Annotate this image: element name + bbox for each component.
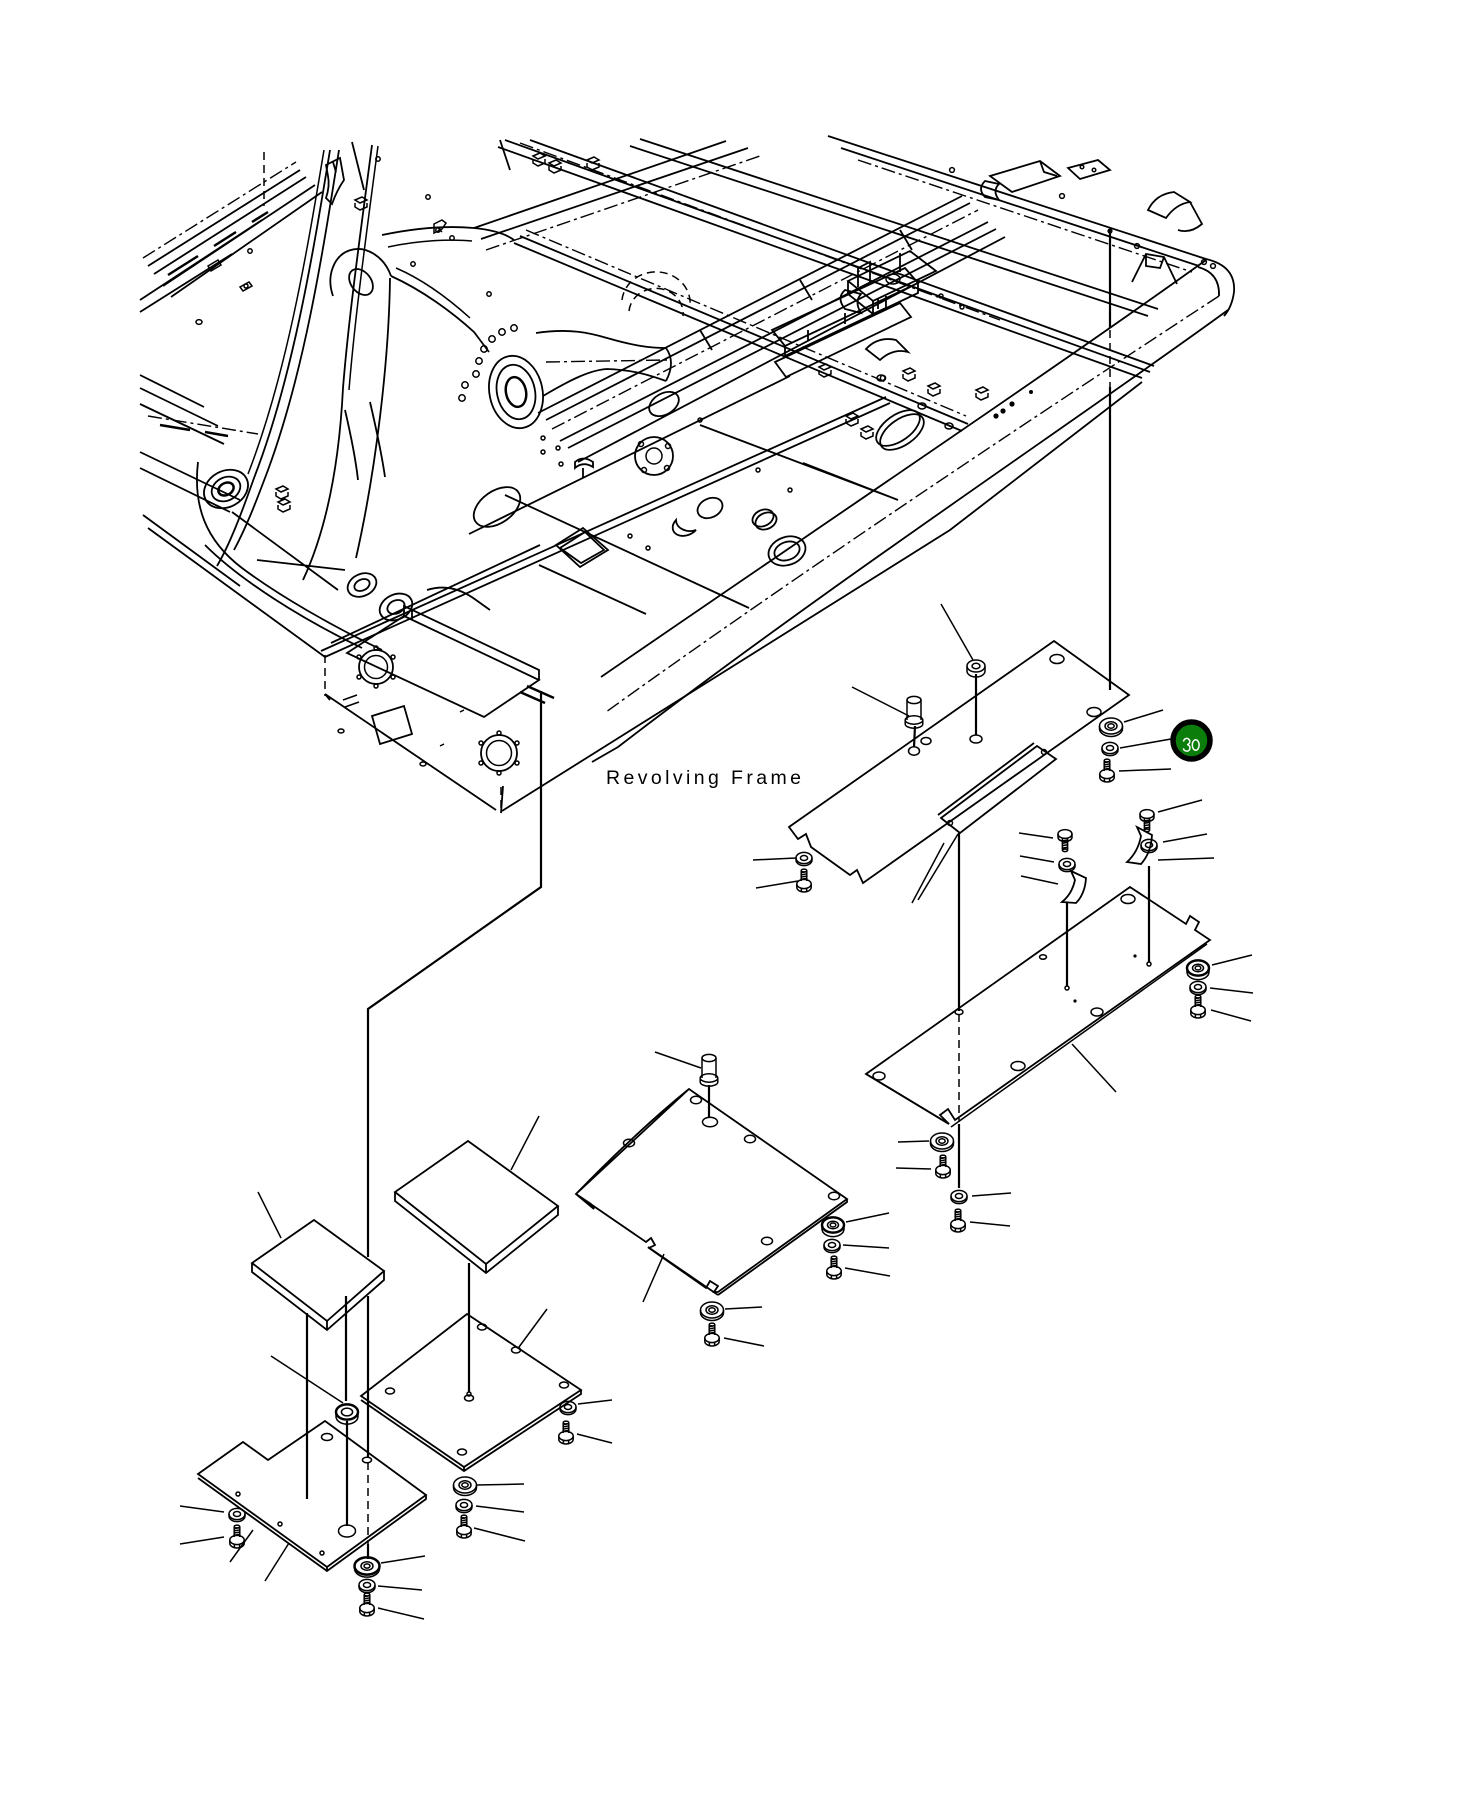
bolt below plate3	[705, 1323, 719, 1346]
box floor front edge	[321, 397, 890, 657]
upper mount bracket	[981, 161, 1060, 200]
flap1 bolt	[1058, 830, 1072, 852]
bolt right of plate2	[1191, 995, 1205, 1018]
callout badge 30	[1173, 722, 1210, 759]
chimney bracket	[326, 158, 344, 204]
washer right of plate3	[824, 1239, 840, 1252]
leader to large washer	[1124, 710, 1163, 722]
top clipped rail ends	[263, 152, 265, 206]
rail b1	[498, 140, 1150, 378]
plate3 lower-left leader	[643, 1254, 664, 1302]
bolt left of plate5	[230, 1525, 244, 1548]
washer left of plate1	[796, 852, 812, 865]
fork clip	[434, 220, 446, 233]
box corner dashes	[500, 787, 502, 813]
pin3 leader	[655, 1052, 701, 1068]
deck flanged circle	[635, 437, 673, 475]
pin bushing on plate 1	[905, 696, 923, 747]
left lower rails	[140, 452, 240, 512]
plate5 leaders	[230, 1530, 289, 1581]
left rail clips	[196, 260, 252, 324]
bolt at line end	[951, 1209, 965, 1232]
pad2 leader	[511, 1116, 539, 1170]
plate 2 (lower right cover)	[866, 887, 1210, 1127]
deck small ovals	[694, 494, 726, 522]
big washer at line B end	[355, 1557, 380, 1577]
plate4 leader	[519, 1309, 547, 1347]
rail m1	[514, 236, 968, 431]
boom eye 2 bearing boss	[482, 351, 549, 433]
deck oval right	[870, 403, 926, 453]
box small details	[338, 695, 464, 766]
box hole 1 with bolt circle	[359, 650, 393, 684]
mid deck bolt cubes	[819, 364, 988, 439]
left arm inner edge	[303, 145, 372, 580]
box step panel	[347, 606, 539, 717]
left arm outer edge	[217, 150, 330, 566]
boom eye 1 boss arc	[330, 249, 391, 296]
bolt below plate4	[457, 1515, 471, 1538]
flap1 washer	[1059, 858, 1075, 871]
pad1 hanger lines	[307, 1296, 346, 1499]
nut with long bolt	[967, 660, 985, 735]
nut leader	[941, 604, 973, 660]
deck dots	[541, 418, 792, 550]
bolt left of plate1	[797, 869, 811, 892]
small washer item 30	[1102, 742, 1118, 755]
big nut below plate4	[454, 1477, 477, 1496]
deck oval hole left	[467, 479, 528, 535]
bolt right of plate4	[559, 1421, 573, 1444]
pad1 leader	[258, 1192, 281, 1238]
arm inner web line	[356, 278, 390, 558]
deck flanged oval	[764, 531, 809, 570]
pin leader	[852, 687, 909, 716]
engine mount bracket	[848, 251, 936, 314]
nut right of plate2	[1187, 960, 1209, 979]
cross band upper edge	[382, 227, 514, 240]
flap1 leader	[1021, 876, 1058, 884]
frame right edge lower	[592, 310, 1228, 762]
hanger line strip to plate2	[958, 833, 960, 1011]
frame right edge centerline	[606, 296, 1219, 712]
pad2 hanger line	[468, 1263, 470, 1392]
grommet ring	[336, 1404, 358, 1424]
bolt dot arc at eye 2	[459, 325, 517, 401]
boom eye 1 hole	[344, 264, 378, 299]
rail from band to top	[474, 141, 748, 239]
boom foot lug eyes	[344, 569, 380, 602]
frame bottom corner box	[325, 694, 503, 813]
small bolt cubes top	[355, 153, 599, 210]
bracket flap 2	[1127, 827, 1152, 966]
plate2 inner leader	[1072, 1044, 1116, 1092]
corner pad bracket	[1068, 160, 1110, 179]
callout leader to washer	[1120, 739, 1171, 748]
box hole 2 with bolt circle	[481, 735, 517, 771]
flap2 bolt	[1140, 810, 1154, 832]
long component boxes	[772, 268, 918, 356]
top-left corner rails	[148, 170, 322, 297]
bolt dots on right edge	[993, 390, 1033, 419]
band right rounded end	[666, 348, 671, 381]
pad 2 (rubber mat)	[395, 1141, 558, 1273]
bolt under plate2	[936, 1155, 950, 1178]
corner bolt dots	[950, 168, 1216, 269]
bracket flap 1	[1062, 871, 1086, 990]
frame right edge upper	[601, 260, 1206, 677]
plate 5 (L-shaped cover)	[198, 1421, 426, 1571]
grommet leader	[271, 1356, 343, 1403]
bent hanger line	[368, 691, 541, 1458]
corner bracket 2	[1132, 254, 1177, 284]
left mid rails	[140, 375, 224, 444]
deck square hatch	[556, 528, 608, 567]
nut right of plate3	[822, 1217, 844, 1236]
lower arm band	[345, 402, 385, 480]
dashed arc hole	[622, 272, 690, 316]
flap2 leader	[1158, 858, 1214, 860]
plate 1 (under cover)	[789, 641, 1129, 883]
plate 4 (left square cover)	[361, 1314, 581, 1471]
deck clip	[575, 459, 593, 479]
doubler strip on plate 1	[938, 743, 1056, 833]
flap2 washer	[1141, 839, 1157, 852]
corner bracket 1	[1148, 192, 1202, 231]
small dots top	[244, 157, 491, 296]
frame lower-left edge	[143, 515, 325, 657]
large washer right of plate1	[1100, 718, 1123, 737]
revolving frame assembly	[140, 136, 1234, 580]
boom foot outline	[197, 462, 382, 650]
band from eye2 to right	[536, 331, 666, 348]
right curved clip	[866, 339, 908, 360]
frame right corner	[1206, 259, 1234, 316]
washer at line B end	[359, 1579, 375, 1592]
box step arc	[427, 588, 490, 610]
top rail t1	[828, 136, 1206, 266]
bolt at line B end	[360, 1593, 374, 1616]
boom foot boss	[197, 462, 255, 515]
deck right holes	[877, 375, 885, 381]
svg-text:Revolving Frame: Revolving Frame	[606, 767, 804, 789]
box recess hatch	[372, 706, 412, 744]
central beams	[538, 196, 996, 448]
plate 3 (middle cover)	[576, 1089, 847, 1295]
washer below plate3	[701, 1302, 724, 1321]
pin above plate 3	[700, 1054, 718, 1118]
washer right of plate2	[1190, 981, 1206, 994]
deck oval hole mid	[645, 387, 683, 421]
washer left of plate5	[229, 1508, 245, 1521]
hanger line to plate 1	[1109, 231, 1111, 690]
deck seam lines	[331, 376, 898, 643]
washer below plate4	[456, 1499, 472, 1512]
cross band lower edge	[391, 276, 489, 352]
bolt right of plate1	[1100, 759, 1114, 782]
bolt right of plate3	[827, 1256, 841, 1279]
frame bottom edge	[502, 382, 1142, 811]
pad 1 (rubber mat)	[252, 1220, 384, 1330]
washer at line end	[951, 1190, 967, 1203]
washer right of plate4	[560, 1401, 576, 1414]
leaders to plate 1	[912, 834, 958, 903]
big washer under plate2	[931, 1133, 954, 1152]
